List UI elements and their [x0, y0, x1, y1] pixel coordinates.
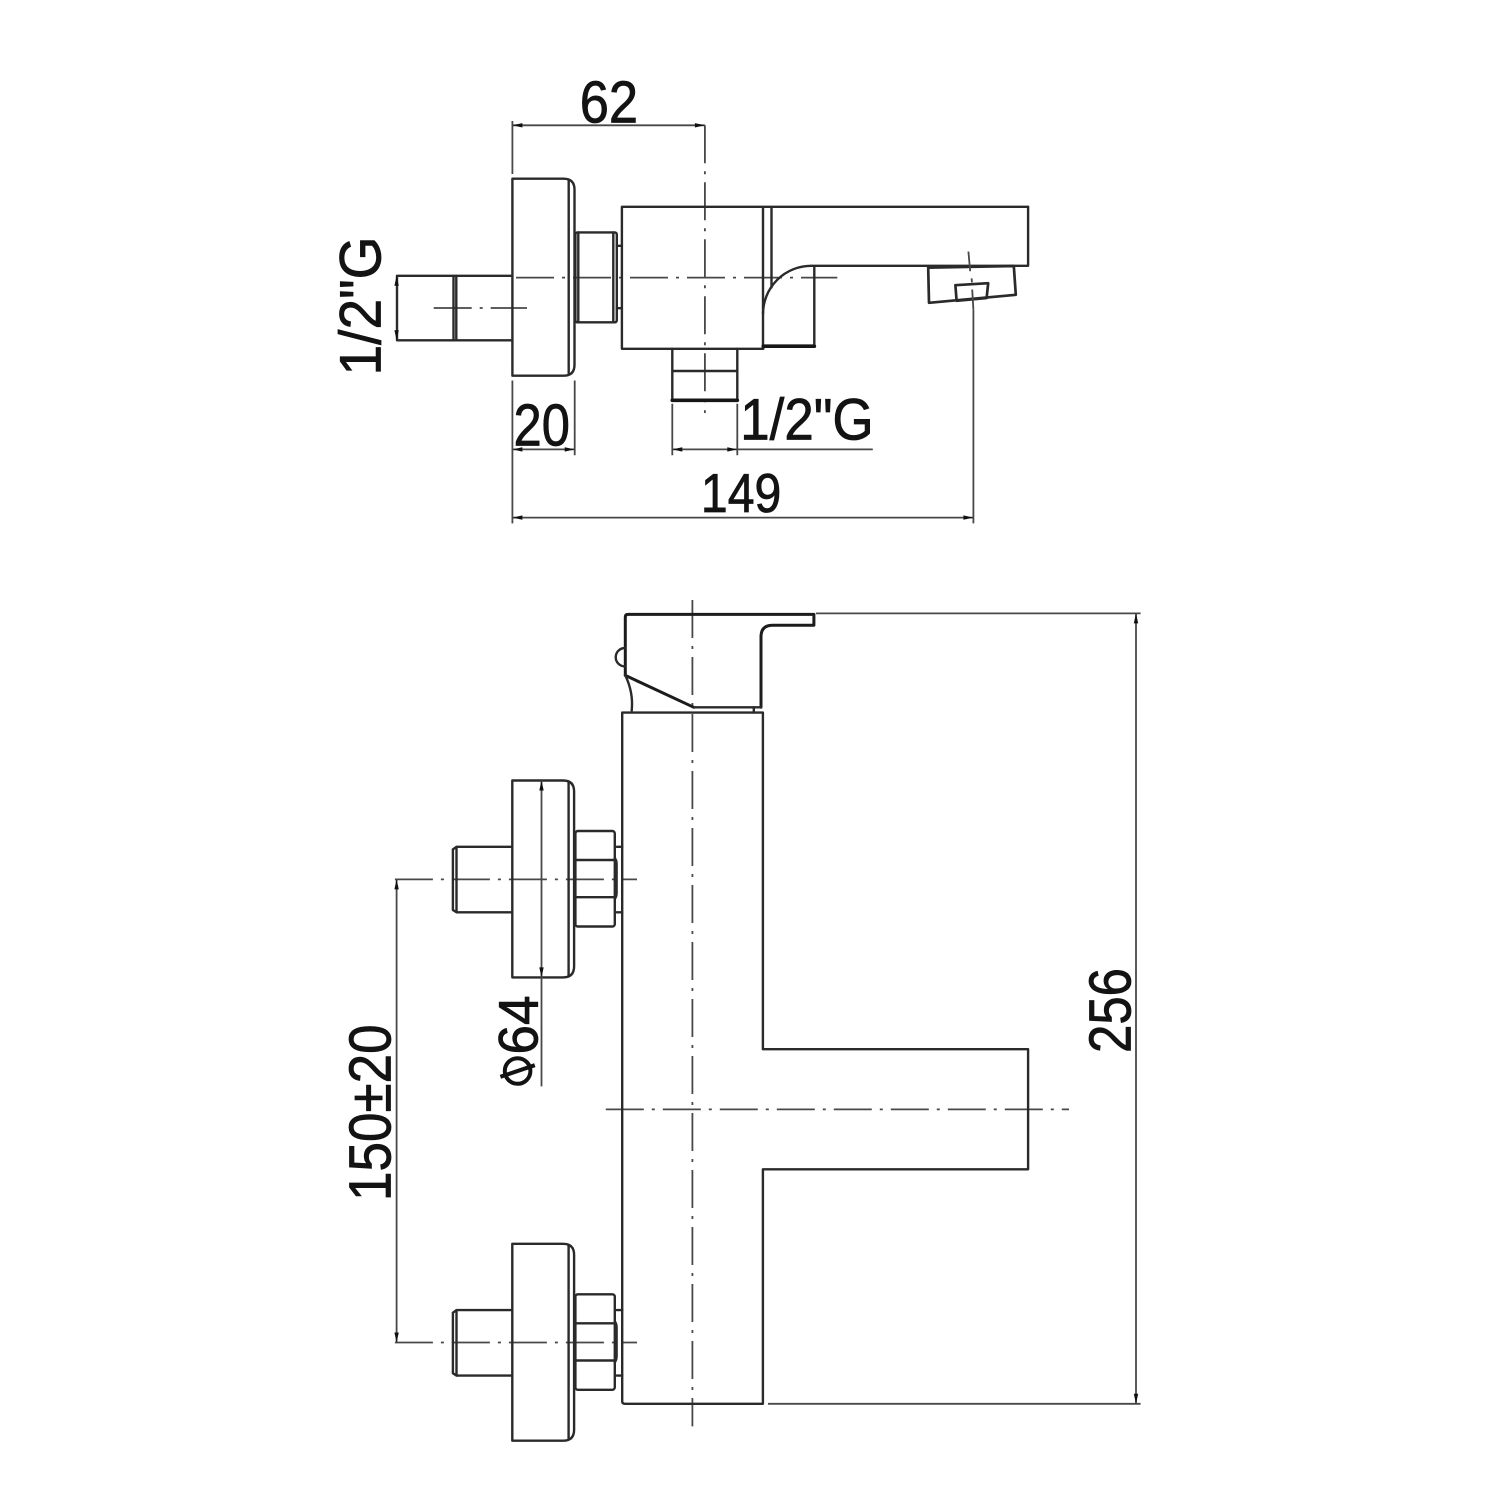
dimension 20 (top view) [512, 381, 574, 459]
lower pipe silhouette ticks (side view) [617, 1310, 623, 1376]
pipe silhouette ticks nut-to-body (top view) [617, 246, 622, 308]
lower inlet pipe (side view) [453, 1310, 512, 1376]
lower escutcheon flange (side view) [512, 1244, 574, 1441]
spout curve fillet (top view) [763, 266, 811, 314]
svg-text:62: 62 [580, 70, 638, 136]
upper pipe silhouette ticks (side view) [617, 847, 623, 913]
dimension 149 (top view) [512, 310, 973, 524]
connection nut (top view) [575, 232, 616, 322]
wire: shower pipe centerline (top view) [434, 307, 527, 309]
dimension φ64 (side view) [486, 781, 549, 1087]
upper inlet pipe (side view) [453, 847, 512, 913]
svg-text:149: 149 [701, 462, 781, 524]
spout underside leg (top view) [763, 267, 814, 346]
svg-text:20: 20 [514, 393, 570, 459]
svg-text:256: 256 [1078, 968, 1144, 1053]
mixer body T-profile (side view) [622, 713, 1028, 1404]
wire: body horizontal centerline (top view) [516, 277, 837, 279]
dimension 62 (top view) [512, 70, 705, 175]
wire: upper inlet centerline (side view) [395, 878, 637, 880]
shower outlet pipe (top view) [397, 276, 512, 341]
aerator diverter knob (top view) [928, 266, 1016, 303]
wire: lower inlet centerline (side view) [395, 1342, 637, 1344]
upper hex nut (side view) [575, 831, 616, 927]
wire: body vertical centerline (top view) [704, 125, 706, 413]
wire: spout arm centerline (side view) [606, 1108, 1069, 1110]
mixer body (top view) [622, 207, 1028, 349]
svg-text:1/2"G: 1/2"G [740, 388, 873, 453]
dimension 256 (side view) [768, 613, 1144, 1403]
dimension 1/2"G shower pipe (top view) [329, 237, 399, 376]
svg-text:1/2"G: 1/2"G [329, 237, 394, 376]
wall escutcheon flange (top view) [512, 179, 574, 376]
lower hex nut (side view) [575, 1294, 616, 1390]
lever handle (side view) [616, 614, 814, 712]
dimension 150±20 (side view) [338, 879, 404, 1342]
wire: aerator centerline (top view) [968, 252, 973, 310]
svg-text:150±20: 150±20 [338, 1024, 404, 1201]
svg-text:64: 64 [486, 996, 549, 1055]
spout (top view) [811, 207, 1028, 266]
wire: vertical centerline (side view) [691, 600, 693, 1426]
lower connection nut (top view) [672, 349, 737, 401]
upper escutcheon flange (side view) [512, 781, 574, 978]
dimension 1/2"G bottom outlet (top view) [672, 388, 873, 456]
